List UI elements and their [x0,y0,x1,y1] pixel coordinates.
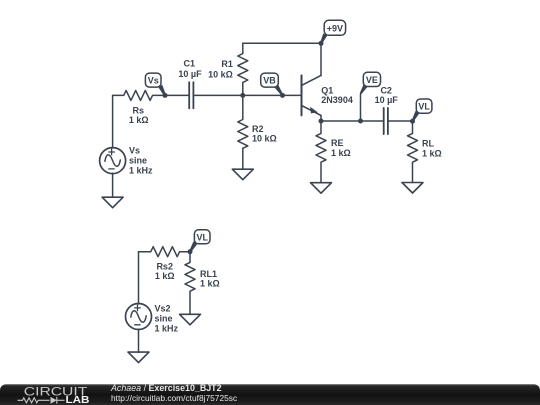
label RL1 1 kΩ [200,269,220,289]
label R1 10 kΩ [208,59,233,79]
svg-text:1 kHz: 1 kHz [129,166,153,176]
svg-text:Rs2: Rs2 [156,262,173,272]
resistor RL [408,121,418,182]
svg-text:VL: VL [418,102,430,112]
svg-text:sine: sine [129,156,147,166]
label C2 10 µF [375,85,399,105]
resistor RE [316,121,326,183]
node VB (flag) [261,73,285,98]
label RE 1 kΩ [331,138,351,158]
label Q1 2N3904 [321,85,353,105]
svg-text:C2: C2 [380,85,392,95]
wire (emitter down) [320,115,322,121]
resistor R1 [238,43,248,95]
svg-text:Rs: Rs [133,105,145,115]
svg-text:1 kΩ: 1 kΩ [200,278,220,288]
svg-text:RL1: RL1 [200,269,217,279]
svg-text:RL: RL [422,139,434,149]
wire (emitter row to C2) [321,120,384,122]
svg-text:RE: RE [331,138,344,148]
footer title text [110,383,237,403]
svg-text:1 kΩ: 1 kΩ [129,115,149,125]
svg-text:10 µF: 10 µF [375,95,399,105]
voltage source Vs [100,95,126,197]
ground (under Vs2) [128,352,149,363]
label Rs 1 kΩ [129,105,149,125]
svg-text:Vs: Vs [129,146,140,156]
ground (under RL) [402,183,423,194]
label R2 10 kΩ [252,124,277,144]
svg-text:Vs: Vs [148,76,159,86]
CircuitLab logo [18,384,90,405]
svg-text:Vs2: Vs2 [155,304,171,314]
voltage source Vs2 [126,252,152,352]
svg-text:2N3904: 2N3904 [321,95,353,105]
svg-text:1 kΩ: 1 kΩ [331,148,351,158]
svg-text:Achaea / Exercise10_BJT2: Achaea / Exercise10_BJT2 [110,383,222,393]
node (emitter junction) [319,119,324,124]
node Vs (flag) [145,73,167,98]
ground (under RE) [311,183,332,194]
ground (under Vs) [102,197,123,208]
resistor RL1 [185,252,195,315]
ground (under R2) [232,169,253,180]
svg-text:VB: VB [263,76,276,86]
label Rs2 1 kΩ [155,262,175,282]
label Vs sine 1 kHz [129,146,153,176]
svg-text:10 kΩ: 10 kΩ [208,69,233,79]
svg-text:VL: VL [196,232,208,242]
ground (under RL1) [180,314,201,325]
wire (Vs node to C1) [165,94,189,96]
svg-text:1 kΩ: 1 kΩ [422,149,442,159]
svg-text:C1: C1 [184,59,196,69]
resistor Rs [113,90,165,100]
wire (C2 to VL) [388,120,413,122]
svg-text:sine: sine [155,313,173,323]
svg-text:1 kΩ: 1 kΩ [155,271,175,281]
label RL 1 kΩ [422,139,442,159]
label C1 10 µF [178,59,202,80]
svg-text:http://circuitlab.com/ctuf8j75: http://circuitlab.com/ctuf8j75725sc [111,393,237,403]
capacitor C2 [384,108,388,134]
svg-text:LAB: LAB [66,395,90,405]
svg-text:R1: R1 [221,59,233,69]
node VE (flag) [358,72,381,123]
wire (collector) [320,43,322,75]
wire (top rail) [243,42,321,44]
svg-text:10 kΩ: 10 kΩ [252,134,277,144]
transistor Q1 [302,75,322,115]
resistor Rs2 [139,247,191,257]
svg-text:+9V: +9V [327,23,343,33]
svg-text:1 kHz: 1 kHz [155,323,179,333]
node +9V (flag) [319,20,346,46]
svg-text:Q1: Q1 [321,85,333,95]
label Vs2 sine 1 kHz [155,304,179,334]
node VL (flag, bottom circuit) [188,230,211,254]
svg-text:VE: VE [366,75,378,85]
node (R1/R2 base junction) [240,93,245,98]
node VL (flag, top circuit) [410,99,432,124]
svg-text:10 µF: 10 µF [178,69,202,79]
wire (C1 to base) [193,94,301,96]
svg-text:R2: R2 [252,124,264,134]
resistor R2 [238,95,248,169]
capacitor C1 [189,82,193,108]
